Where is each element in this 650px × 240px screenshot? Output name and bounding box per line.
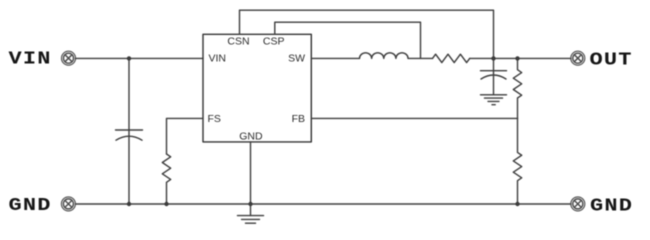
inductor L1 xyxy=(360,53,409,59)
node FS resistor to gnd rail xyxy=(164,202,168,206)
terminal GND right xyxy=(571,197,585,211)
wire FS net xyxy=(167,118,204,154)
capacitor C2 (output) xyxy=(481,58,507,94)
wire CSN net xyxy=(240,10,494,58)
wire input cap branch vertical xyxy=(128,58,130,204)
resistor R1 (current sense) xyxy=(433,54,470,62)
node divider-bottom to gnd rail xyxy=(515,202,519,206)
wire inductor to sense resistor xyxy=(408,57,432,59)
wire sense resistor to OUT terminal xyxy=(470,57,571,59)
terminal OUT xyxy=(571,51,585,65)
resistor R2 (divider top) xyxy=(513,58,521,118)
svg-text:CSP: CSP xyxy=(263,35,285,47)
resistor R4 (FS set) xyxy=(162,154,170,204)
wire FB line xyxy=(311,117,517,119)
wire VIN terminal to IC VIN pin xyxy=(75,57,203,59)
IC U1 box xyxy=(203,34,311,142)
svg-text:CSN: CSN xyxy=(227,35,249,47)
svg-text:GND: GND xyxy=(590,196,633,217)
wire GND pin down xyxy=(250,142,252,216)
svg-text:FB: FB xyxy=(292,113,305,125)
node GND pin on rail xyxy=(248,202,252,206)
wire GND rail xyxy=(75,203,571,205)
svg-text:FS: FS xyxy=(208,113,221,125)
svg-text:SW: SW xyxy=(288,53,305,65)
wire SW to inductor xyxy=(311,57,359,59)
svg-text:GND: GND xyxy=(9,195,52,216)
svg-text:GND: GND xyxy=(239,131,263,143)
wire CSP net xyxy=(275,22,421,58)
node input-cap tap xyxy=(127,56,131,60)
svg-text:VIN: VIN xyxy=(9,49,52,70)
node CSN/cap junction xyxy=(491,56,495,60)
resistor R3 (divider bottom) xyxy=(513,118,521,204)
capacitor C1 (input) xyxy=(116,130,143,140)
node divider junction xyxy=(515,56,519,60)
node input cap on gnd rail xyxy=(127,202,131,206)
ground (output cap) xyxy=(481,95,507,105)
svg-text:VIN: VIN xyxy=(209,53,227,65)
svg-text:OUT: OUT xyxy=(590,50,633,71)
terminal VIN xyxy=(62,51,76,65)
ground (IC GND) xyxy=(238,216,264,224)
terminal GND left xyxy=(61,197,75,211)
